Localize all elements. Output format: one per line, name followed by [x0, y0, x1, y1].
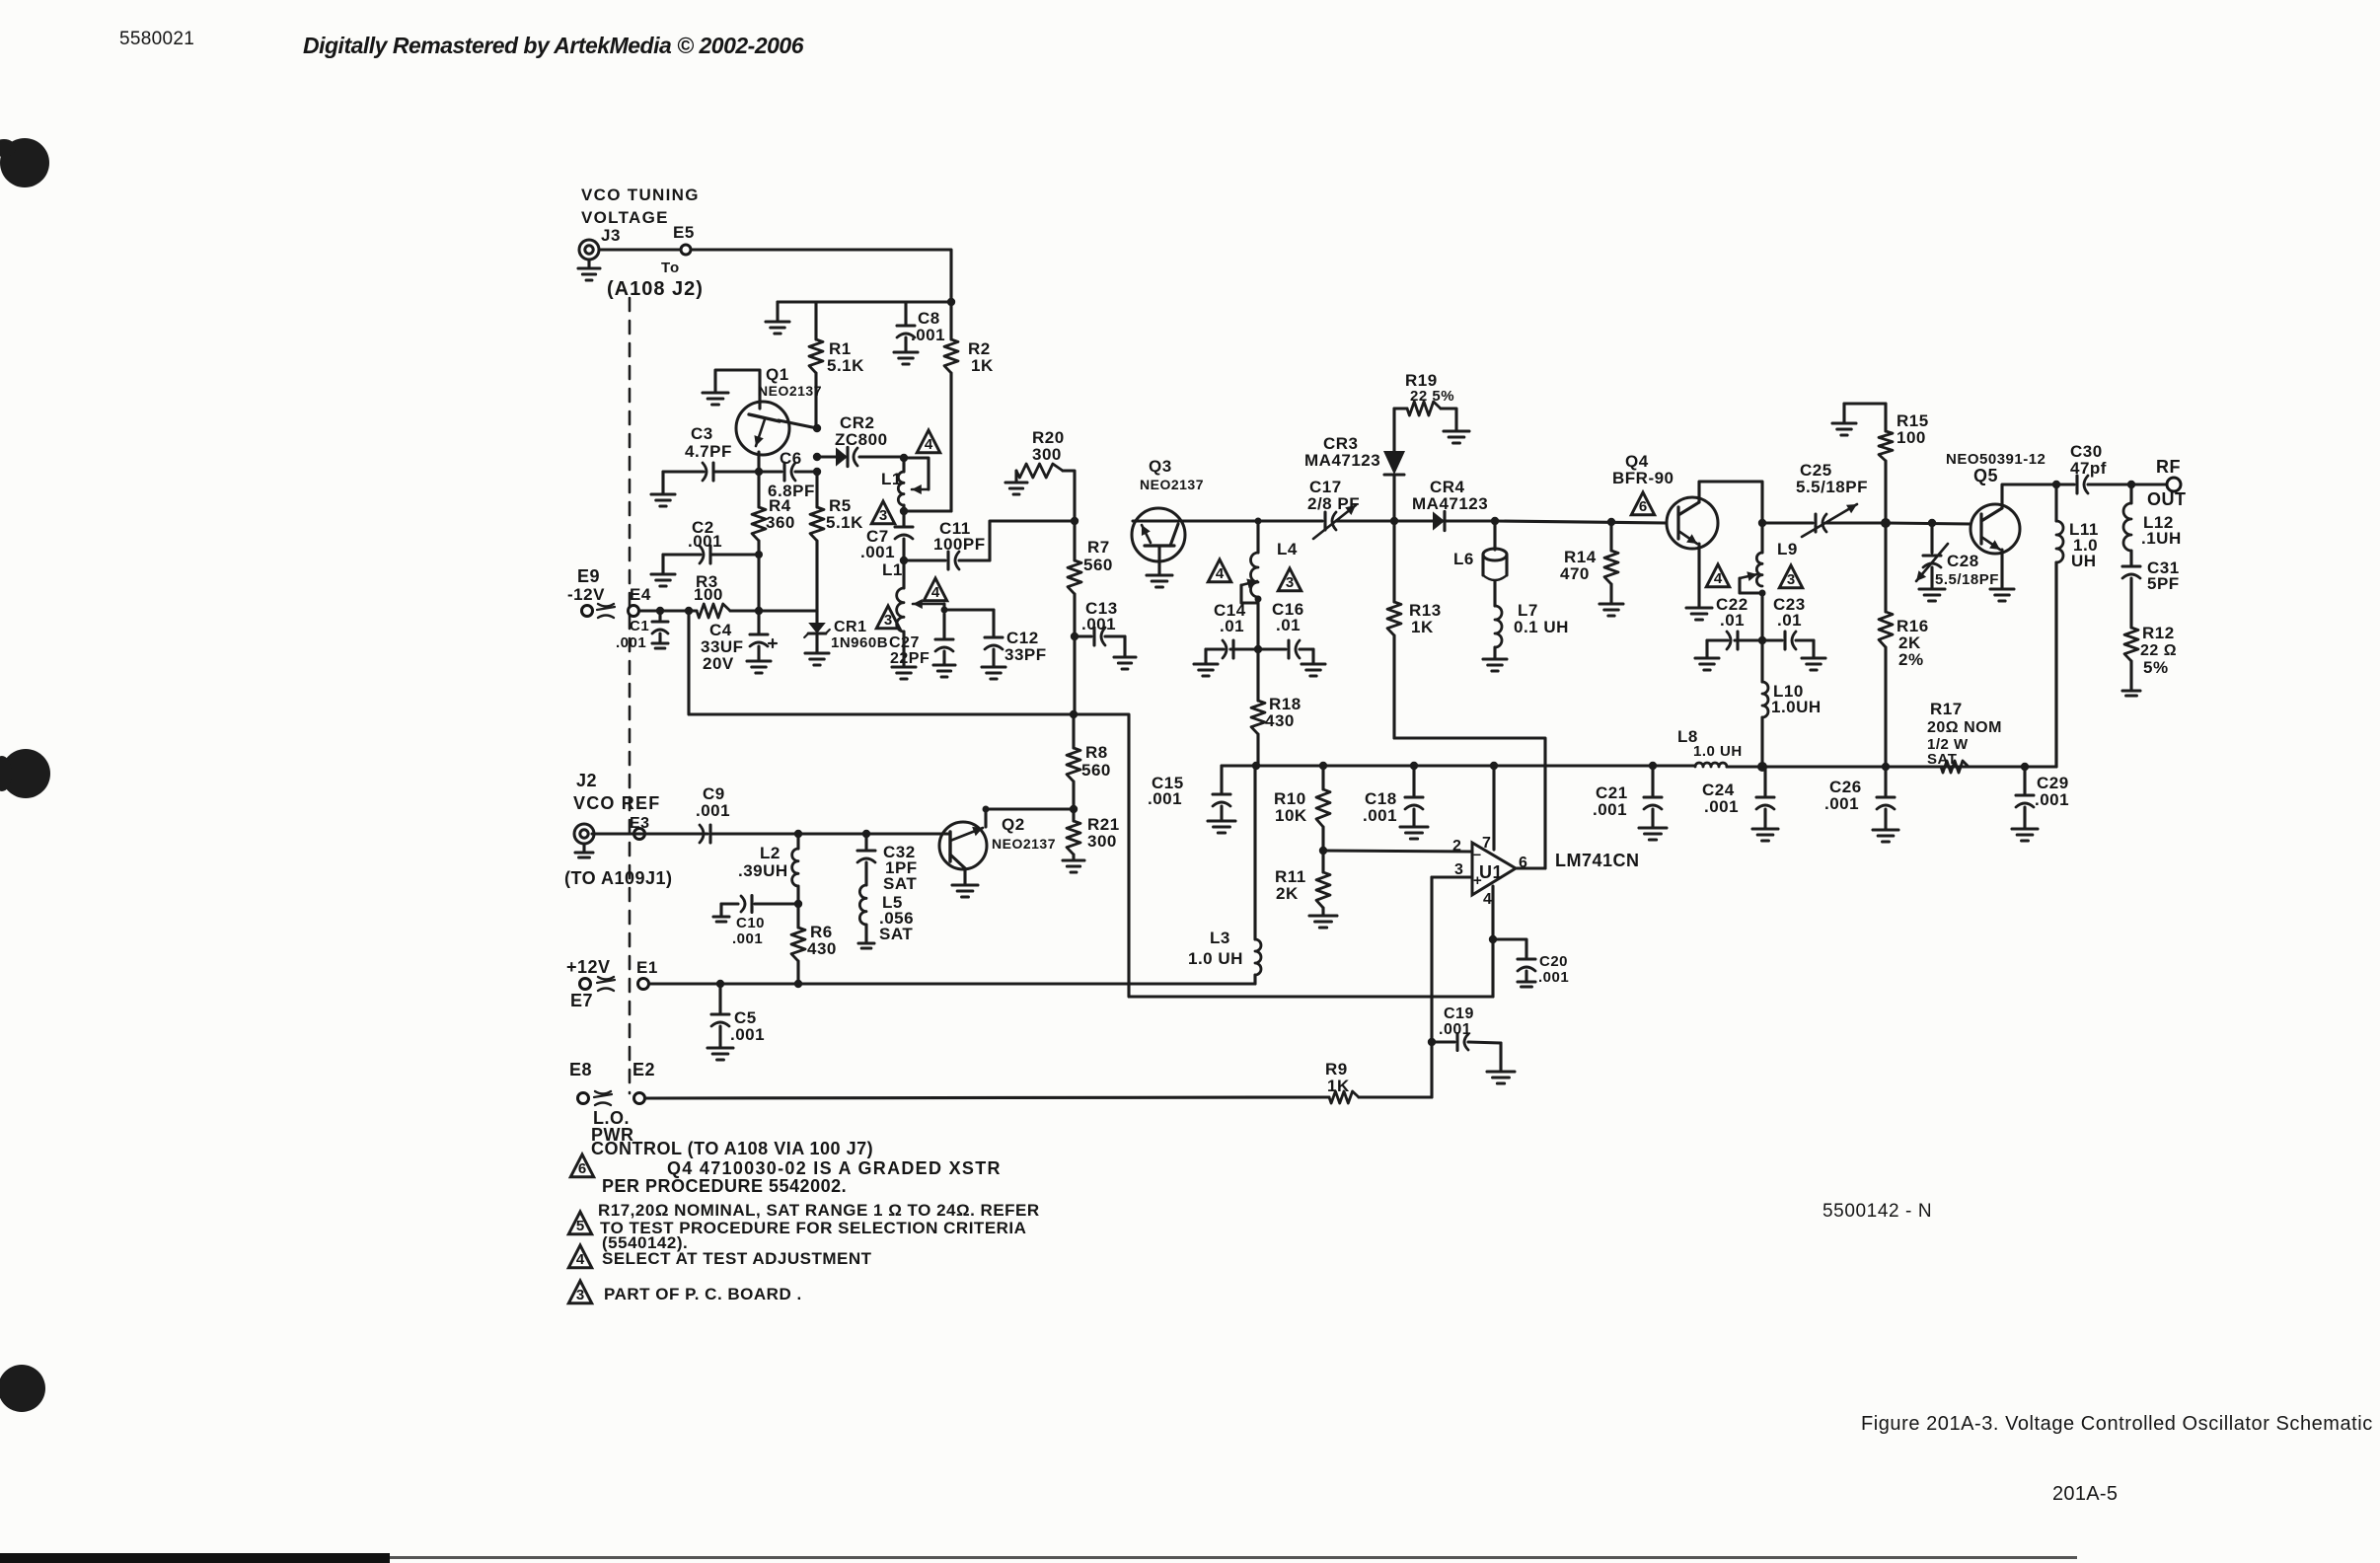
label L.O. PWR CONTROL	[591, 1108, 873, 1158]
node Q2 collector	[983, 806, 990, 813]
flag 3 near L1	[871, 501, 894, 524]
inductor L11	[2056, 484, 2099, 767]
node C20	[1489, 935, 1497, 943]
ground at Q3	[1147, 560, 1172, 587]
svg-text:.001: .001	[2035, 790, 2069, 809]
node C4 loop	[685, 607, 693, 615]
svg-text:R7: R7	[1087, 538, 1110, 557]
flag 5 note	[568, 1212, 591, 1234]
node L2	[794, 830, 802, 838]
svg-text:To: To	[661, 260, 680, 276]
wire pin3	[1432, 875, 1472, 878]
node L9 bottom	[1759, 590, 1766, 597]
svg-text:300: 300	[1087, 832, 1117, 851]
wire L4 to C14 node	[1256, 599, 1259, 649]
svg-text:300: 300	[1032, 445, 1062, 464]
wire Q4 collector	[1699, 482, 1762, 521]
node E5/R2/C8	[947, 298, 955, 306]
svg-text:E4: E4	[630, 585, 651, 604]
label To (A108 J2)	[607, 260, 704, 300]
svg-text:SAT: SAT	[879, 925, 913, 943]
svg-text:PART OF P. C. BOARD .: PART OF P. C. BOARD .	[604, 1285, 802, 1303]
svg-text:5580021: 5580021	[119, 29, 194, 49]
terminal E5	[673, 223, 695, 255]
svg-text:430: 430	[807, 939, 837, 958]
node R8/Q2 collector	[1070, 805, 1078, 813]
note pc board	[604, 1285, 802, 1303]
node C30 left	[2052, 481, 2060, 488]
svg-text:BFR-90: BFR-90	[1612, 469, 1674, 487]
terminal E9	[582, 606, 593, 617]
capacitor C25 variable	[1762, 461, 1886, 537]
svg-text:E7: E7	[570, 991, 593, 1010]
flag 4 near L1	[917, 430, 939, 453]
flag 6 near Q4	[1631, 492, 1654, 515]
svg-text:22PF: 22PF	[890, 650, 930, 667]
svg-text:.001: .001	[730, 1025, 765, 1044]
terminal RF OUT	[2131, 457, 2187, 509]
capacitor C3	[663, 424, 759, 481]
svg-text:7: 7	[1482, 835, 1491, 852]
capacitor C7	[860, 511, 913, 561]
punch hole middle	[0, 749, 50, 798]
svg-text:22 Ω: 22 Ω	[2140, 642, 2177, 659]
wire L9 to C22 node	[1760, 593, 1763, 640]
flag 4 note	[568, 1245, 591, 1268]
capacitor C30	[2056, 442, 2131, 493]
svg-text:5: 5	[576, 1218, 584, 1234]
wire E2 bus	[645, 1097, 1329, 1098]
svg-text:SAT: SAT	[1927, 751, 1957, 768]
punch hole top	[0, 138, 49, 187]
svg-text:Q1: Q1	[766, 365, 789, 384]
connector J2	[574, 815, 650, 844]
wire pin7	[1492, 766, 1495, 850]
svg-text:C28: C28	[1947, 552, 1979, 570]
diode CR4	[1394, 478, 1495, 531]
note R17	[598, 1201, 1040, 1252]
svg-text:NEO2137: NEO2137	[1140, 477, 1204, 492]
resistor R18	[1251, 649, 1302, 765]
capacitor C22	[1695, 595, 1762, 670]
svg-text:Digitally Remastered by ArtekM: Digitally Remastered by ArtekMedia © 200…	[303, 33, 804, 58]
note select	[602, 1249, 872, 1268]
node Q4 collector bus	[1758, 519, 1766, 527]
svg-text:4.7PF: 4.7PF	[685, 442, 732, 461]
label VCO REF	[573, 793, 660, 813]
page header part number	[119, 29, 194, 49]
resistor R3	[694, 572, 730, 618]
inductor L3	[1188, 766, 1261, 984]
node C32	[862, 830, 870, 838]
svg-text:.01: .01	[1276, 616, 1301, 634]
node C5	[716, 980, 724, 988]
inductor L6 bead	[1453, 521, 1507, 606]
label E8	[569, 1060, 592, 1079]
svg-text:1.0 UH: 1.0 UH	[1188, 949, 1243, 968]
terminal E2	[634, 1093, 645, 1104]
svg-text:R17,20Ω NOMINAL, SAT RANGE 1 Ω: R17,20Ω NOMINAL, SAT RANGE 1 Ω TO 24Ω. R…	[598, 1201, 1040, 1220]
capacitor C9	[592, 784, 798, 843]
inductor L2	[738, 834, 798, 904]
svg-text:L2: L2	[760, 844, 781, 862]
svg-text:Figure 201A-3. Voltage Contro: Figure 201A-3. Voltage Controlled Oscill…	[1861, 1413, 2373, 1435]
svg-text:22 5%: 22 5%	[1410, 388, 1454, 405]
L1 lower tap	[913, 599, 944, 610]
node L12 top	[2127, 481, 2135, 488]
svg-text:R17: R17	[1930, 700, 1963, 718]
transistor Q2	[939, 815, 1056, 869]
svg-text:5500142 - N: 5500142 - N	[1822, 1201, 1932, 1222]
diode CR1	[804, 611, 888, 665]
label E2	[632, 1060, 655, 1079]
resistor R14	[1560, 522, 1623, 616]
dashed assembly boundary	[629, 298, 632, 1093]
capacitor C1	[616, 611, 668, 651]
resistor R12	[2122, 624, 2177, 696]
svg-text:360: 360	[766, 513, 795, 532]
svg-text:UH: UH	[2071, 552, 2097, 570]
resistor R7	[1068, 521, 1113, 636]
figure doc number	[1822, 1201, 1932, 1222]
svg-text:L4: L4	[1277, 540, 1298, 558]
svg-text:J3: J3	[601, 226, 621, 245]
wire R15 node to Q5	[1886, 523, 1971, 524]
svg-text:R12: R12	[2142, 624, 2175, 642]
capacitor C8	[894, 302, 945, 364]
svg-text:1.0UH: 1.0UH	[1771, 698, 1822, 716]
capacitor C14	[1194, 601, 1258, 676]
transistor Q1	[736, 365, 822, 455]
node CR3	[1390, 517, 1398, 525]
wire pin2	[1323, 851, 1472, 852]
svg-text:.001: .001	[911, 326, 945, 344]
svg-text:.001: .001	[1824, 794, 1859, 813]
op-amp U1	[1452, 835, 1527, 908]
svg-text:Q2: Q2	[1002, 815, 1025, 834]
capacitor C21	[1593, 766, 1667, 840]
resistor R19	[1394, 371, 1469, 443]
svg-text:2%: 2%	[1898, 650, 1924, 669]
svg-text:4: 4	[1714, 570, 1723, 587]
wire J3 to E5	[599, 248, 681, 251]
ground under L1 lower	[892, 632, 916, 679]
break symbol E1	[597, 977, 615, 991]
svg-text:+: +	[1473, 872, 1482, 889]
node R18 bus	[1252, 762, 1260, 770]
svg-text:4: 4	[931, 584, 940, 601]
node R4/-12V	[755, 607, 763, 615]
svg-text:L1: L1	[881, 470, 902, 488]
svg-text:20Ω NOM: 20Ω NOM	[1927, 719, 2002, 736]
terminal E8	[578, 1093, 589, 1104]
capacitor C32	[857, 834, 918, 893]
node L2/C10/R6	[794, 900, 802, 908]
resistor R6	[791, 904, 837, 984]
svg-text:1K: 1K	[971, 356, 994, 375]
punch hole bottom	[0, 1365, 45, 1412]
resistor R1	[809, 302, 864, 428]
node C7/C11	[900, 557, 908, 564]
svg-text:E9: E9	[577, 566, 600, 586]
node tap/C27/C12	[941, 607, 948, 614]
node L1/R2/C7	[900, 507, 908, 515]
flag 4 near L9	[1706, 564, 1729, 587]
node CR2/L1	[900, 454, 908, 462]
inductor L9	[1756, 523, 1798, 586]
capacitor C12	[982, 610, 1047, 679]
svg-text:(TO A109J1): (TO A109J1)	[564, 868, 673, 888]
node C17 left	[1255, 518, 1262, 525]
wire Q1 emitter	[757, 452, 760, 472]
svg-text:C1: C1	[630, 618, 649, 634]
svg-text:5%: 5%	[2143, 658, 2169, 677]
svg-text:.01: .01	[1777, 611, 1802, 630]
node C18 bus	[1410, 762, 1418, 770]
svg-text:3: 3	[576, 1287, 584, 1303]
wire tap to C12	[944, 608, 994, 611]
svg-text:R8: R8	[1085, 743, 1108, 762]
wire Q2 collector	[986, 809, 1074, 827]
svg-text:OUT: OUT	[2147, 489, 2187, 509]
svg-text:33PF: 33PF	[1004, 645, 1047, 664]
wire C11 to Q3 base	[990, 521, 1075, 560]
svg-text:.001: .001	[688, 532, 722, 551]
wire R7 to loop	[1073, 636, 1076, 714]
svg-text:3: 3	[879, 507, 887, 524]
resistor R10	[1274, 766, 1330, 851]
svg-text:4: 4	[1483, 891, 1492, 908]
svg-text:L3: L3	[1210, 929, 1230, 947]
page number	[2052, 1483, 2118, 1505]
bottom scan bar	[0, 1553, 2077, 1563]
inductor L10	[1762, 640, 1822, 767]
capacitor C10	[713, 896, 798, 948]
svg-text:C20: C20	[1539, 953, 1568, 970]
svg-text:.001: .001	[1704, 797, 1739, 816]
L9 tap	[1740, 571, 1762, 593]
L1 tap	[904, 458, 929, 494]
svg-text:201A-5: 201A-5	[2052, 1483, 2118, 1505]
svg-text:MA47123: MA47123	[1304, 451, 1380, 470]
node C28/Q5 base	[1928, 519, 1936, 527]
node R10/R11/pin2	[1319, 847, 1327, 855]
svg-text:E2: E2	[632, 1060, 655, 1079]
transistor Q5	[1946, 451, 2045, 554]
svg-text:Q5: Q5	[1973, 466, 1998, 485]
diode CR3	[1304, 409, 1405, 521]
svg-text:1.0 UH: 1.0 UH	[1693, 743, 1743, 760]
svg-text:560: 560	[1083, 556, 1113, 574]
node C25/R15/R16	[1881, 518, 1891, 528]
svg-text:100: 100	[1897, 428, 1926, 447]
svg-text:.001: .001	[1081, 615, 1116, 633]
svg-text:.001: .001	[696, 801, 730, 820]
node C29 bus	[2021, 763, 2029, 771]
L4 tap	[1241, 579, 1258, 604]
wire C9 to Q2	[798, 832, 950, 835]
inductor L12	[2123, 484, 2182, 551]
node loop/R7 column	[1070, 710, 1078, 718]
node R6 bus	[794, 980, 802, 988]
svg-text:E1: E1	[636, 958, 658, 977]
capacitor C13	[1075, 599, 1136, 669]
svg-text:3: 3	[1787, 571, 1795, 588]
svg-text:.001: .001	[1148, 789, 1182, 808]
svg-text:.01: .01	[1720, 611, 1745, 630]
svg-text:100PF: 100PF	[933, 535, 986, 554]
wire top rail	[778, 300, 951, 303]
resistor R4	[752, 472, 795, 611]
svg-text:.001: .001	[1363, 806, 1397, 825]
capacitor C24	[1702, 767, 1778, 841]
label J2	[576, 771, 597, 790]
node R7/C13	[1071, 633, 1078, 640]
figure caption	[1861, 1413, 2373, 1435]
svg-text:E5: E5	[673, 223, 695, 242]
svg-text:Q4 4710030-02 IS A GRADED: Q4 4710030-02 IS A GRADED XSTR	[667, 1158, 1002, 1178]
transistor Q4	[1612, 452, 1718, 549]
node U1 pin7 bus	[1490, 762, 1498, 770]
svg-text:.001: .001	[860, 543, 895, 561]
flag 6 note	[570, 1154, 593, 1177]
capacitor C27	[889, 614, 955, 677]
svg-text:LM741CN: LM741CN	[1555, 851, 1640, 870]
ground at C3	[651, 472, 675, 506]
svg-text:VCO TUNING: VCO TUNING	[581, 186, 700, 204]
svg-text:.01: .01	[1220, 617, 1244, 635]
terminal E1	[636, 958, 658, 990]
ground at Q1 base	[703, 370, 760, 409]
svg-text:10K: 10K	[1275, 806, 1307, 825]
label LM741CN	[1555, 851, 1640, 870]
svg-text:4: 4	[576, 1251, 585, 1268]
inductor L5	[858, 885, 914, 948]
capacitor C29	[2012, 767, 2069, 841]
capacitor C20	[1493, 939, 1569, 987]
resistor R17	[1927, 700, 2002, 773]
svg-text:L6: L6	[1453, 550, 1474, 568]
capacitor C6	[759, 449, 817, 500]
label +12V	[566, 957, 611, 977]
svg-text:VOLTAGE: VOLTAGE	[581, 208, 669, 227]
svg-text:C6: C6	[780, 449, 802, 468]
wire Q3 to L4	[1185, 519, 1258, 522]
connector J3	[579, 226, 621, 260]
svg-text:NEO2137: NEO2137	[758, 383, 822, 399]
svg-text:-12V: -12V	[567, 585, 605, 604]
node C2/R4	[755, 551, 763, 558]
svg-text:.001: .001	[616, 634, 646, 651]
svg-text:.001: .001	[1593, 800, 1627, 819]
resistor R11	[1275, 851, 1337, 928]
svg-text:0.1 UH: 0.1 UH	[1514, 618, 1569, 636]
svg-text:2: 2	[1452, 838, 1461, 855]
break symbol E8	[594, 1091, 612, 1105]
wire Q2 emitter	[952, 868, 978, 897]
node Q1 emitter / C3 / C6 / R4	[755, 468, 763, 476]
flag 3 near L4	[1278, 568, 1301, 591]
flag 3 near L9	[1779, 565, 1802, 588]
svg-text:MA47123: MA47123	[1412, 494, 1488, 513]
svg-text:5.1K: 5.1K	[827, 356, 864, 375]
ground under R21	[1063, 860, 1084, 872]
wire Q5 collector	[2002, 484, 2056, 508]
terminal E4	[629, 585, 651, 617]
svg-text:5.5/18PF: 5.5/18PF	[1935, 571, 1999, 588]
ground at C2	[651, 555, 675, 586]
svg-text:L9: L9	[1777, 540, 1798, 558]
resistor R8	[1067, 714, 1111, 809]
label TO A109J1	[564, 868, 673, 888]
svg-text:CR1: CR1	[834, 619, 867, 635]
transistor Q3	[1132, 457, 1204, 561]
capacitor C28 variable	[1916, 523, 1999, 601]
capacitor C16	[1258, 600, 1325, 676]
flag 4 near L1 lower	[924, 578, 946, 601]
flag 4 near L4	[1208, 559, 1230, 582]
capacitor C11	[904, 519, 990, 569]
svg-text:.001: .001	[732, 930, 763, 947]
svg-text:Q3: Q3	[1149, 457, 1172, 476]
svg-text:C3: C3	[691, 424, 713, 443]
wire pin4	[1491, 886, 1494, 997]
svg-text:−: −	[1473, 847, 1482, 862]
svg-text:47pf: 47pf	[2070, 459, 2107, 478]
capacitor C17 variable	[1258, 478, 1394, 539]
svg-text:PER PROCEDURE 5542002.: PER PROCEDURE 5542002.	[602, 1176, 847, 1196]
capacitor C18	[1363, 766, 1428, 839]
svg-text:.1UH: .1UH	[2141, 529, 2182, 548]
page header remaster credit	[303, 33, 804, 58]
capacitor C2	[663, 518, 759, 563]
wire R3 to R4	[730, 609, 817, 612]
inductor L7	[1483, 601, 1569, 671]
svg-text:L1: L1	[882, 560, 903, 579]
node L10 bus	[1757, 762, 1767, 772]
svg-text:.001: .001	[1538, 969, 1569, 986]
resistor R20	[1005, 428, 1075, 521]
capacitor C4	[701, 611, 777, 673]
capacitor C26	[1824, 767, 1898, 842]
svg-text:C10: C10	[736, 915, 765, 931]
svg-text:2/8 PF: 2/8 PF	[1307, 494, 1360, 513]
capacitor C31	[2122, 551, 2180, 628]
svg-text:VCO REF: VCO REF	[573, 793, 660, 813]
node Q1 collector	[813, 424, 821, 432]
svg-text:U1: U1	[1479, 862, 1503, 882]
svg-text:3: 3	[1286, 574, 1294, 591]
wire E4 rail	[639, 609, 697, 612]
wire +12V bus	[649, 982, 1255, 985]
label E9 -12V	[567, 566, 605, 604]
svg-text:4: 4	[1216, 565, 1225, 582]
svg-text:3: 3	[884, 612, 892, 629]
node C14/C16/R18	[1254, 645, 1262, 653]
node L4 bottom	[1255, 596, 1262, 603]
ground at J2	[575, 844, 593, 857]
resistor R2	[944, 302, 994, 511]
capacitor C19	[1432, 1005, 1515, 1083]
svg-text:.001: .001	[1439, 1021, 1471, 1038]
node R14	[1607, 518, 1615, 526]
resistor R16	[1879, 523, 1929, 767]
resistor R21	[1067, 809, 1120, 860]
node R10 bus	[1319, 762, 1327, 770]
svg-text:(A108 J2): (A108 J2)	[607, 278, 704, 300]
svg-text:560: 560	[1081, 761, 1111, 780]
wire pin3 column	[1430, 877, 1433, 1097]
